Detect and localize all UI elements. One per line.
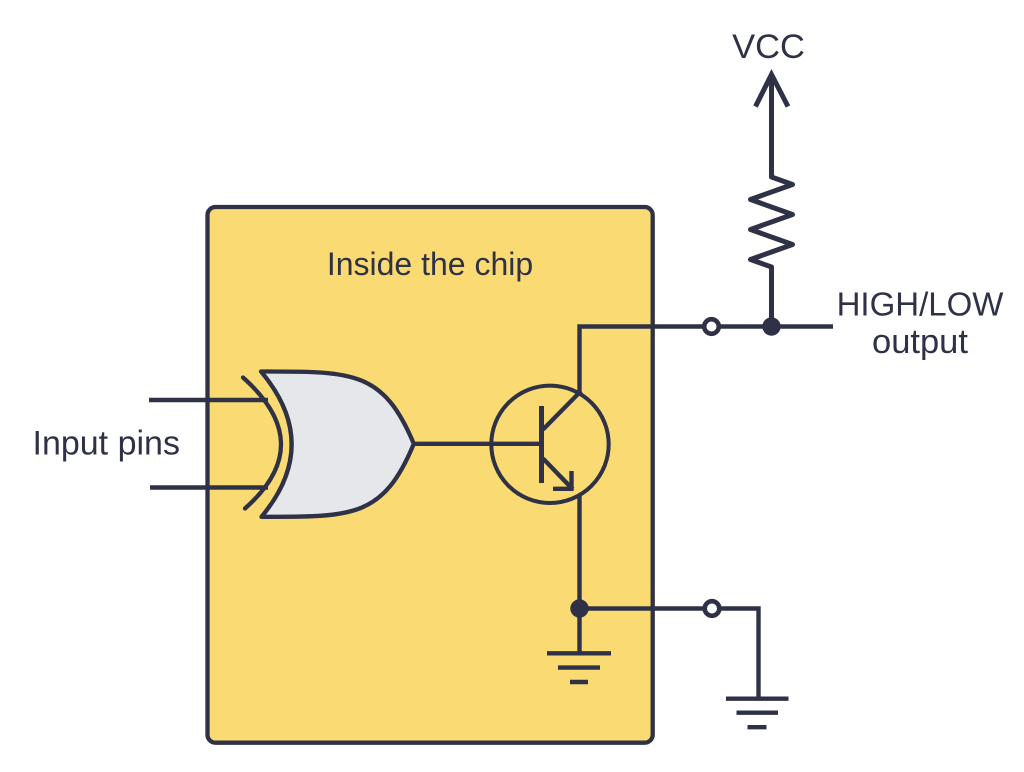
svg-text:Input pins: Input pins: [33, 425, 180, 463]
transistor Q1 collector diagonal: [543, 391, 581, 430]
transistor Q1 emitter diagonal: [543, 459, 573, 490]
resistor R1: [751, 77, 793, 321]
output pin open circle (top): [704, 319, 719, 334]
svg-text:output: output: [872, 323, 968, 361]
junction dot (emitter / ground): [570, 599, 588, 617]
svg-text:VCC: VCC: [732, 28, 805, 66]
VCC arrow head: [756, 75, 789, 107]
wire emitter down to ground: [577, 496, 581, 652]
transistor Q1 base bar: [539, 406, 544, 483]
svg-text:HIGH/LOW: HIGH/LOW: [837, 286, 1005, 323]
wire gate output to transistor base: [413, 442, 541, 446]
transistor Q1 circle: [491, 386, 608, 503]
wire low output: [580, 609, 759, 699]
svg-text:Inside the chip: Inside the chip: [327, 246, 533, 282]
chip body box: [208, 207, 653, 743]
wire input A: [149, 398, 268, 402]
low output pin open circle (bottom): [705, 601, 720, 616]
junction dot (collector / resistor): [762, 317, 780, 335]
XOR gate U1 input arc: [243, 378, 281, 509]
XOR gate U1 body: [261, 371, 414, 516]
wire input B: [150, 485, 268, 489]
wire collector up and to output: [580, 327, 834, 393]
transistor Q1 emitter arrowhead: [553, 471, 572, 489]
ground symbol (inside chip): [547, 653, 611, 682]
ground symbol (output side): [726, 699, 789, 728]
